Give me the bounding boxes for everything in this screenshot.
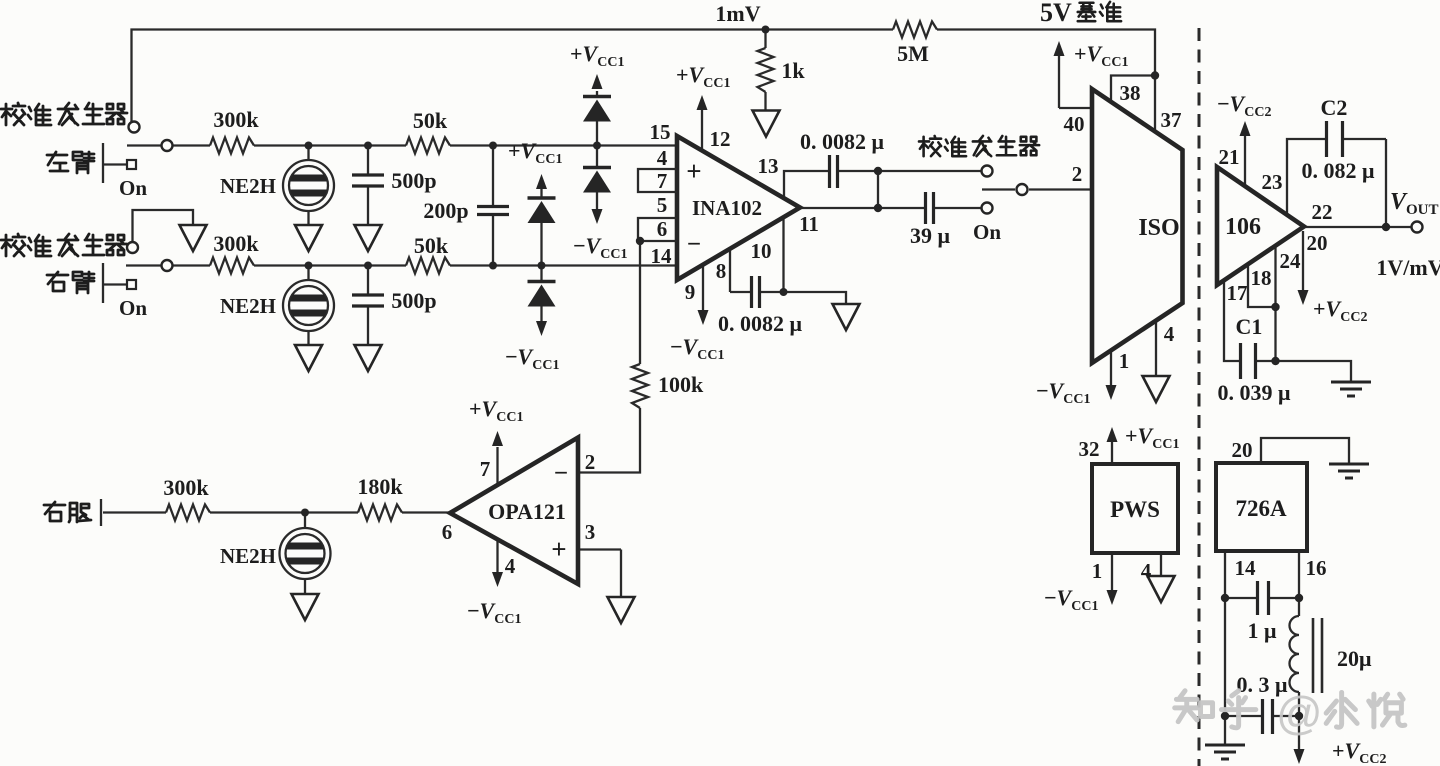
svg-text:18: 18 [1251, 266, 1272, 290]
svg-text:50k: 50k [413, 108, 448, 133]
svg-text:11: 11 [799, 212, 819, 236]
svg-text:1k: 1k [781, 58, 805, 83]
svg-text:2: 2 [1072, 162, 1083, 186]
svg-text:500p: 500p [391, 288, 436, 313]
svg-text:21: 21 [1219, 145, 1240, 169]
svg-text:22: 22 [1312, 200, 1333, 224]
svg-text:0. 039 μ: 0. 039 μ [1218, 380, 1292, 405]
svg-text:4: 4 [1141, 559, 1152, 583]
svg-text:NE2H: NE2H [220, 544, 276, 568]
svg-text:0. 0082 μ: 0. 0082 μ [800, 129, 885, 154]
svg-text:9: 9 [685, 280, 696, 304]
svg-text:300k: 300k [213, 107, 259, 132]
svg-text:3: 3 [585, 520, 596, 544]
svg-text:37: 37 [1161, 108, 1182, 132]
svg-text:13: 13 [758, 154, 779, 178]
svg-text:106: 106 [1225, 214, 1261, 240]
svg-text:NE2H: NE2H [220, 174, 276, 198]
svg-text:1: 1 [1119, 349, 1130, 373]
svg-text:INA102: INA102 [692, 196, 762, 220]
svg-text:5M: 5M [897, 41, 929, 66]
svg-text:38: 38 [1120, 81, 1141, 105]
svg-text:4: 4 [1164, 322, 1175, 346]
svg-text:1: 1 [1092, 559, 1103, 583]
svg-text:PWS: PWS [1110, 497, 1160, 522]
svg-text:12: 12 [710, 127, 731, 151]
svg-text:2: 2 [585, 450, 596, 474]
svg-text:300k: 300k [213, 231, 259, 256]
svg-text:0. 0082 μ: 0. 0082 μ [718, 311, 803, 336]
svg-text:C2: C2 [1321, 95, 1348, 120]
svg-text:180k: 180k [357, 474, 403, 499]
svg-text:50k: 50k [414, 233, 449, 258]
svg-text:14: 14 [651, 244, 673, 268]
svg-text:39 μ: 39 μ [910, 223, 951, 248]
svg-text:On: On [119, 176, 147, 200]
svg-text:4: 4 [657, 146, 668, 170]
svg-text:OPA121: OPA121 [488, 499, 566, 524]
svg-text:23: 23 [1262, 170, 1283, 194]
svg-text:100k: 100k [658, 372, 704, 397]
svg-text:+: + [686, 156, 701, 186]
svg-text:20: 20 [1232, 438, 1253, 462]
svg-text:20μ: 20μ [1337, 646, 1372, 671]
svg-text:10: 10 [751, 239, 772, 263]
svg-text:20: 20 [1307, 231, 1328, 255]
svg-text:ISO: ISO [1138, 215, 1179, 241]
svg-text:6: 6 [657, 217, 668, 241]
svg-text:On: On [973, 220, 1001, 244]
svg-text:1 μ: 1 μ [1248, 618, 1278, 643]
svg-text:1mV: 1mV [715, 1, 760, 26]
svg-text:726A: 726A [1235, 496, 1287, 521]
svg-text:24: 24 [1280, 249, 1302, 273]
svg-text:300k: 300k [163, 475, 209, 500]
svg-text:NE2H: NE2H [220, 294, 276, 318]
svg-text:15: 15 [650, 120, 671, 144]
svg-text:+: + [551, 534, 566, 564]
svg-text:6: 6 [442, 520, 453, 544]
svg-text:5V: 5V [1040, 0, 1072, 27]
svg-text:200p: 200p [423, 198, 468, 223]
svg-text:0. 082 μ: 0. 082 μ [1302, 158, 1376, 183]
svg-text:8: 8 [716, 259, 727, 283]
svg-text:4: 4 [505, 554, 516, 578]
svg-text:−: − [687, 231, 701, 258]
svg-text:17: 17 [1227, 281, 1248, 305]
svg-text:7: 7 [480, 457, 491, 481]
svg-text:−: − [554, 460, 568, 487]
svg-text:14: 14 [1235, 556, 1257, 580]
svg-text:C1: C1 [1236, 314, 1263, 339]
svg-text:32: 32 [1079, 437, 1100, 461]
svg-text:@: @ [1276, 687, 1323, 739]
svg-text:16: 16 [1306, 556, 1327, 580]
svg-text:1V/mV: 1V/mV [1376, 255, 1440, 280]
svg-text:7: 7 [657, 169, 668, 193]
svg-text:500p: 500p [391, 168, 436, 193]
svg-text:On: On [119, 296, 147, 320]
svg-text:40: 40 [1064, 112, 1085, 136]
svg-text:5: 5 [657, 193, 668, 217]
